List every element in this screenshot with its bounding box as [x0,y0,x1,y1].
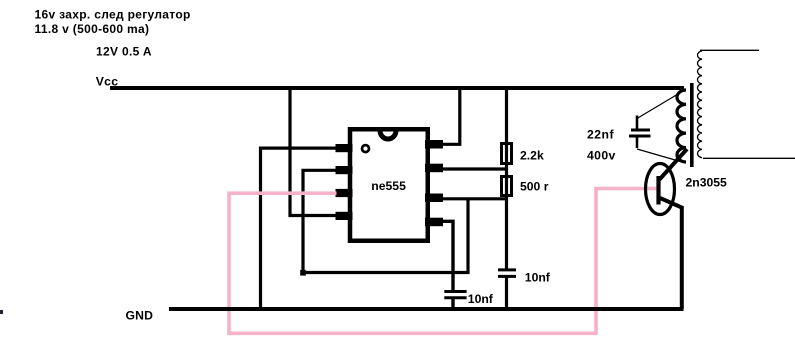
wire GND rail [169,307,684,311]
junction dot node A [300,270,306,276]
U1 pin 7 (DIS) stub [425,164,443,173]
wire C2 to GND rail [505,278,508,310]
capacitor C3 22nf/400v top diagonal wire [637,91,683,119]
wire Vcc rail [110,86,684,90]
U1 pin-1 indicator dot [362,145,369,152]
svg-text:16v захр. след регулатор: 16v захр. след регулатор [35,8,191,22]
svg-text:ne555: ne555 [371,179,406,193]
capacitor C3 bottom lead [636,138,639,149]
capacitor C3 22nf plates [631,129,650,132]
U1 pin 8 (VCC) stub [425,140,443,149]
capacitor C1 10nf (control pin) plates [444,290,466,293]
U1 pin 2 (TRIG) stub [336,166,353,174]
U1 orientation notch [380,131,396,140]
svg-text:10nf: 10nf [525,271,551,285]
wire node A to pin6 node [303,198,468,273]
wire U1 pin6 to R2 bottom node [440,197,507,200]
svg-text:400v: 400v [587,148,616,162]
wire T1 secondary bottom lead [703,157,795,159]
svg-text:22nf: 22nf [587,127,615,141]
resistor R1 2.2k [502,144,512,164]
IC U1 ne555 body [350,129,428,241]
transformer T1 core [690,83,694,167]
Q1 base bar [656,176,660,205]
wire U1 pin5 to C1 [440,221,453,290]
U1 pin 4 (RESET) stub [336,212,353,220]
wire U1 pin1 to GND rail [261,148,339,309]
wire Vcc rail to R1 and divider chain lead [505,88,508,269]
Q1 collector wire to T1 primary bottom [659,149,687,180]
capacitor C2 10nf (threshold filter) plates [498,268,516,271]
svg-text:12V 0.5 A: 12V 0.5 A [96,45,152,59]
U1 pin 1 (GND) stub [336,144,353,152]
wire U1 pin8 to Vcc rail [440,88,460,144]
resistor R2 500r [502,177,512,196]
svg-text:2.2k: 2.2k [520,148,544,162]
wire U1 pin7 to R1/R2 node [440,167,507,170]
transistor Q1 2n3055 body circle [646,164,675,215]
svg-text:GND: GND [126,309,154,323]
wire U1 pin4 to Vcc rail [290,88,338,216]
U1 pin 6 (THR) stub [425,194,443,203]
stray dot at left margin [0,310,3,314]
U1 pin 5 (CV) stub [425,218,443,227]
svg-text:11.8 v (500-600 ma): 11.8 v (500-600 ma) [35,22,150,36]
wire T1 secondary top lead [700,49,759,51]
wire U1 pin2 down to node A [303,170,338,272]
capacitor C3 top lead [636,116,639,129]
svg-text:10nf: 10nf [468,292,494,306]
U1 pin 3 (OUT) stub [336,189,353,197]
transformer T1 secondary winding [697,51,702,158]
svg-text:500 r: 500 r [520,179,549,193]
svg-text:2n3055: 2n3055 [686,175,728,189]
wire C1 to GND rail [451,299,454,309]
Q1 emitter wire to GND rail [660,198,682,309]
transformer T1 primary winding [677,90,686,162]
wire pink: U1 pin3 output to Q1 base [229,189,657,334]
capacitor C3 bottom diagonal wire [637,149,682,162]
